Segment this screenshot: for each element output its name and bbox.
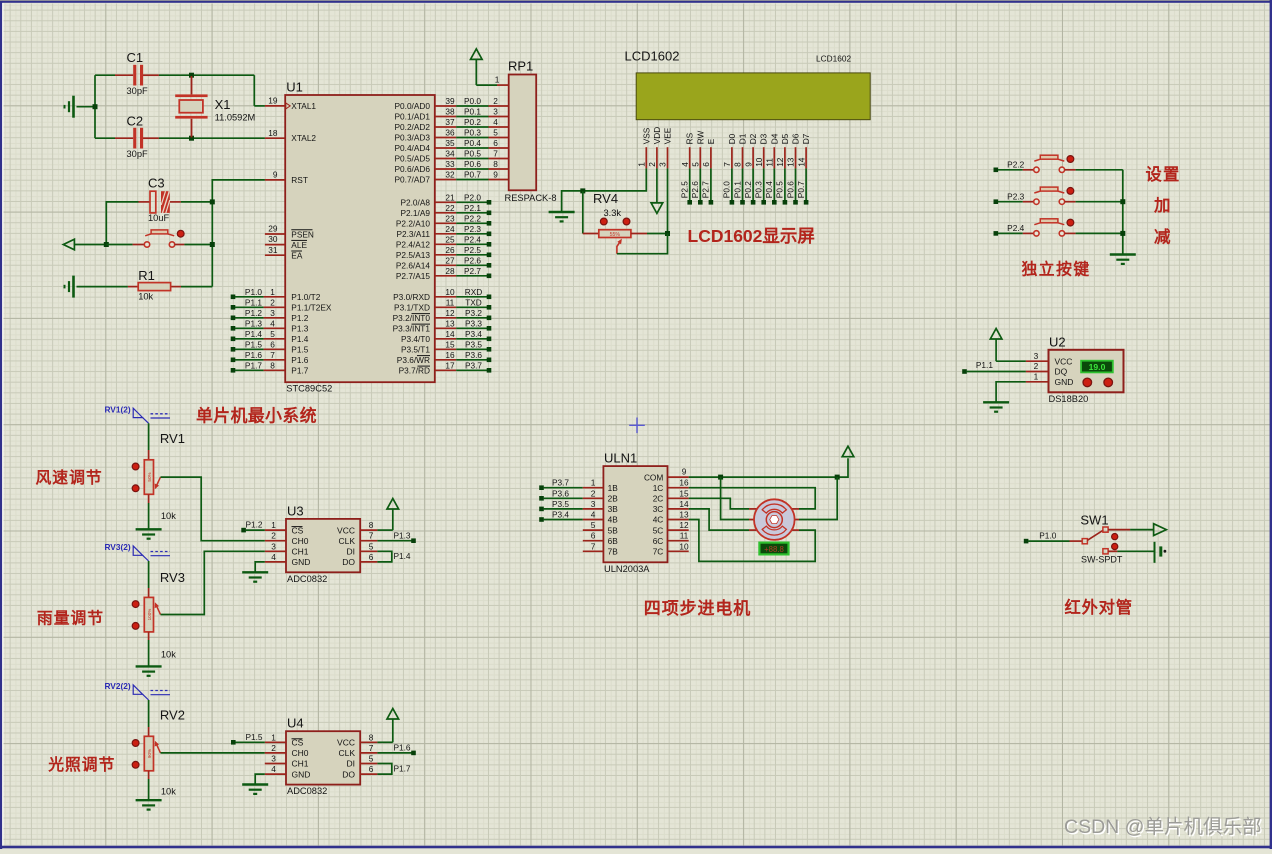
wire VEE — [667, 168, 669, 233]
node junction — [189, 136, 194, 141]
svg-text:P0.1: P0.1 — [464, 107, 481, 117]
pin P1.4 (5) with net label — [231, 329, 309, 344]
svg-text:6: 6 — [591, 531, 596, 541]
svg-text:3: 3 — [270, 308, 275, 318]
svg-text:2: 2 — [591, 488, 596, 498]
svg-text:3: 3 — [271, 754, 276, 764]
pin EA (31) — [265, 245, 303, 261]
svg-text:19: 19 — [268, 96, 278, 106]
svg-text:ULN2003A: ULN2003A — [604, 564, 650, 574]
power up arrow — [471, 49, 483, 85]
wire — [148, 503, 150, 529]
push button P2.2 — [994, 155, 1123, 172]
svg-text:P1.5: P1.5 — [245, 732, 262, 742]
svg-text:P1.7: P1.7 — [245, 360, 262, 370]
pin P2.4 (25) with net label — [396, 234, 491, 249]
svg-text:GND: GND — [292, 769, 311, 779]
net tap RV3(2) — [104, 542, 170, 561]
svg-text:30pF: 30pF — [127, 149, 149, 159]
pin RST (9) — [265, 170, 308, 186]
svg-text:P2.3/A11: P2.3/A11 — [396, 229, 430, 239]
U4 left pin 3 — [265, 754, 286, 764]
svg-text:PSEN: PSEN — [291, 229, 314, 239]
temperature sensor U2 DS18B20 — [1026, 334, 1124, 404]
node junction — [835, 475, 840, 480]
svg-text:8: 8 — [369, 732, 374, 742]
wire — [94, 75, 96, 138]
svg-text:GND: GND — [292, 557, 311, 567]
svg-text:LCD1602显示屏: LCD1602显示屏 — [688, 226, 815, 246]
svg-text:P1.6: P1.6 — [291, 355, 308, 365]
LCD pin 3 VEE — [658, 127, 673, 168]
svg-text:P2.2: P2.2 — [1007, 160, 1024, 170]
svg-text:P2.7: P2.7 — [701, 181, 711, 198]
svg-text:P1.2: P1.2 — [245, 308, 262, 318]
svg-text:P2.5: P2.5 — [680, 181, 690, 198]
pin P1.2 (3) with net label — [231, 308, 309, 323]
pin 6B — [583, 531, 618, 546]
wire — [647, 233, 668, 235]
svg-text:5: 5 — [591, 520, 596, 530]
svg-text:P1.4: P1.4 — [245, 329, 262, 339]
push button P2.4 — [994, 219, 1123, 236]
svg-text:P1.7: P1.7 — [393, 763, 410, 773]
svg-text:11.0592M: 11.0592M — [215, 112, 256, 122]
svg-text:DO: DO — [342, 557, 355, 567]
svg-text:10: 10 — [754, 157, 764, 167]
pin ALE (30) — [265, 234, 308, 250]
svg-text:18: 18 — [268, 128, 278, 138]
svg-text:光照调节: 光照调节 — [47, 755, 115, 774]
svg-text:设置: 设置 — [1146, 166, 1181, 184]
svg-text:VDD: VDD — [652, 127, 662, 145]
wire wiper — [617, 234, 668, 254]
svg-text:3.3k: 3.3k — [604, 208, 622, 218]
wire 1C to motor right top — [689, 488, 816, 509]
svg-text:独立按键: 独立按键 — [1022, 260, 1091, 279]
terminal output arrow — [1154, 524, 1167, 536]
svg-text:EA: EA — [291, 251, 303, 261]
U4 left pin 1 — [265, 732, 286, 742]
svg-text:P1.0: P1.0 — [245, 287, 262, 297]
motor rpm display — [759, 543, 788, 555]
wire — [148, 561, 150, 588]
svg-text:24: 24 — [445, 224, 455, 234]
svg-text:P0.4/AD4: P0.4/AD4 — [394, 143, 430, 153]
power up arrow — [842, 446, 854, 457]
ground — [65, 96, 96, 118]
svg-text:RV1: RV1 — [160, 431, 185, 446]
wire — [1117, 550, 1154, 552]
pin 4B — [539, 510, 618, 525]
wire COM to power — [689, 458, 848, 477]
svg-text:P1.4: P1.4 — [393, 551, 410, 561]
svg-text:P3.4: P3.4 — [552, 510, 569, 520]
svg-text:CH1: CH1 — [292, 547, 309, 557]
svg-text:P2.6/A14: P2.6/A14 — [396, 261, 431, 271]
wire — [181, 286, 212, 288]
pin P1.5 (6) with net label — [231, 339, 309, 354]
pin P2.3 (24) with net label — [396, 224, 491, 239]
LCD pin 8 D1 — [733, 133, 748, 168]
svg-text:P2.6: P2.6 — [690, 181, 700, 198]
U4 left pin 4 — [265, 764, 286, 774]
svg-text:P3.1/TXD: P3.1/TXD — [394, 303, 430, 313]
U4 right pin 5 — [360, 754, 377, 764]
resistor pack RP1 RESPACK-8 — [495, 59, 557, 203]
wire 4C to motor right bottom — [689, 520, 816, 562]
svg-text:28: 28 — [445, 266, 455, 276]
svg-text:P3.5: P3.5 — [465, 339, 482, 349]
svg-text:P0.7: P0.7 — [796, 181, 806, 198]
wire — [159, 74, 254, 76]
svg-text:P2.2: P2.2 — [464, 213, 481, 223]
svg-text:12: 12 — [679, 520, 689, 530]
svg-text:39: 39 — [445, 96, 455, 106]
svg-text:P3.7: P3.7 — [552, 478, 569, 488]
wire DQ net P1.1 — [962, 360, 1026, 374]
svg-text:U2: U2 — [1049, 334, 1066, 349]
resistor R1 10k — [128, 268, 181, 302]
svg-text:3: 3 — [1034, 351, 1039, 361]
svg-text:P3.4/T0: P3.4/T0 — [401, 334, 430, 344]
svg-text:P1.0/T2: P1.0/T2 — [291, 292, 320, 302]
pin P3.0 (10) with net label — [393, 287, 491, 302]
svg-text:37: 37 — [445, 117, 455, 127]
svg-text:P0.2/AD2: P0.2/AD2 — [394, 122, 430, 132]
svg-text:CH1: CH1 — [292, 759, 309, 769]
svg-text:9: 9 — [493, 170, 498, 180]
potentiometer RV4 3.3k — [583, 191, 647, 254]
svg-text:COM: COM — [644, 472, 663, 482]
wire net P0.2 — [743, 168, 755, 204]
wire DI-DO net P1.7 — [377, 763, 411, 774]
LCD pin 13 D6 — [786, 133, 801, 168]
svg-text:14: 14 — [796, 157, 806, 167]
node junction — [210, 242, 215, 247]
LCD1602 display body — [636, 73, 870, 120]
svg-text:27: 27 — [445, 255, 455, 265]
svg-text:P1.3: P1.3 — [393, 530, 410, 540]
svg-text:RESPACK-8: RESPACK-8 — [505, 193, 557, 203]
wire 2C to motor left top — [689, 498, 749, 509]
ground — [983, 402, 1009, 411]
LCD pin 10 D3 — [754, 133, 769, 168]
LCD pin 14 D7 — [796, 133, 811, 168]
potentiometer RV1 10k — [132, 431, 185, 521]
svg-text:4C: 4C — [653, 515, 664, 525]
U3 right pin 6 — [360, 552, 377, 562]
svg-text:VCC: VCC — [337, 525, 355, 535]
svg-text:2: 2 — [270, 297, 275, 307]
cursor crosshair marker — [629, 418, 645, 434]
svg-text:6: 6 — [369, 552, 374, 562]
wire — [95, 74, 115, 76]
svg-text:100%: 100% — [147, 609, 152, 621]
svg-text:P2.4/A12: P2.4/A12 — [396, 240, 431, 250]
mcu U1 STC89C52 — [285, 80, 435, 394]
svg-text:2: 2 — [271, 743, 276, 753]
svg-text:CLK: CLK — [338, 536, 355, 546]
wire net P0.0 — [722, 168, 734, 204]
svg-text:CH0: CH0 — [292, 536, 309, 546]
svg-text:单片机最小系统: 单片机最小系统 — [196, 406, 317, 426]
pin COM (9) — [644, 467, 689, 483]
svg-text:P0.1/AD1: P0.1/AD1 — [394, 112, 430, 122]
wire — [582, 191, 584, 234]
svg-text:12: 12 — [775, 157, 785, 167]
pin P3.6 (16) with net label — [397, 350, 492, 365]
terminal output arrow — [63, 239, 106, 250]
pin P1.0 (1) with net label — [231, 287, 321, 302]
pin P2.0 (21) with net label — [400, 192, 491, 207]
svg-text:1: 1 — [271, 732, 276, 742]
node junction — [189, 73, 194, 78]
U3 left pin 2 — [265, 531, 286, 541]
svg-text:10: 10 — [679, 541, 689, 551]
wire VCC to power — [377, 529, 392, 531]
pin 2C (15) — [653, 488, 689, 503]
pin 1B — [539, 478, 618, 493]
pin P3.1 (11) with net label — [394, 297, 491, 312]
svg-text:11: 11 — [765, 158, 775, 167]
svg-text:6: 6 — [270, 339, 275, 349]
pin P3.5 (15) with net label — [401, 339, 491, 354]
svg-text:5B: 5B — [608, 525, 619, 535]
svg-text:35: 35 — [445, 138, 455, 148]
ground — [65, 276, 128, 298]
svg-text:P2.4: P2.4 — [1007, 223, 1024, 233]
svg-text:X1: X1 — [215, 97, 231, 112]
svg-text:P1.5: P1.5 — [245, 339, 262, 349]
LCD pin 6 E — [701, 138, 716, 168]
wire — [148, 423, 150, 450]
svg-text:3: 3 — [658, 162, 668, 167]
pin P0.1 (38) wire to RP1 pin 3 — [394, 107, 508, 122]
svg-text:D6: D6 — [791, 133, 801, 144]
potentiometer RV3 10k — [132, 570, 185, 660]
wire — [181, 201, 212, 203]
LCD pin 12 D5 — [775, 133, 790, 168]
pin XTAL2 (18) — [265, 128, 317, 143]
svg-text:P2.3: P2.3 — [464, 224, 481, 234]
svg-text:25: 25 — [445, 234, 455, 244]
wire — [148, 640, 150, 666]
power up arrow — [387, 709, 399, 743]
svg-text:RV2: RV2 — [160, 708, 185, 723]
svg-text:P2.1: P2.1 — [464, 203, 481, 213]
svg-text:C1: C1 — [127, 50, 144, 65]
svg-text:RV2(2): RV2(2) — [104, 681, 130, 691]
svg-text:VSS: VSS — [641, 127, 651, 144]
svg-text:6B: 6B — [608, 536, 619, 546]
svg-text:XTAL2: XTAL2 — [291, 133, 316, 143]
pin 4C (13) — [653, 510, 689, 525]
svg-text:6C: 6C — [653, 536, 664, 546]
svg-text:SW1: SW1 — [1080, 513, 1108, 528]
U3 left pin 4 — [265, 552, 286, 562]
wire — [148, 700, 150, 727]
svg-text:2: 2 — [1034, 361, 1039, 371]
svg-text:P2.5/A13: P2.5/A13 — [396, 250, 431, 260]
svg-text:P0.2: P0.2 — [743, 181, 753, 198]
svg-text:C2: C2 — [127, 114, 144, 129]
svg-text:P1.7: P1.7 — [291, 366, 308, 376]
svg-text:9: 9 — [273, 170, 278, 180]
wire — [148, 779, 150, 800]
wire — [159, 137, 265, 139]
svg-text:+88.8: +88.8 — [764, 545, 784, 554]
adc U3 ADC0832 — [286, 503, 360, 583]
svg-text:1: 1 — [495, 75, 500, 85]
svg-text:P0.0: P0.0 — [464, 96, 481, 106]
power down arrow VDD — [651, 168, 663, 213]
wire VSS to ground — [562, 168, 647, 212]
svg-text:26: 26 — [445, 245, 455, 255]
svg-text:7: 7 — [591, 541, 596, 551]
svg-text:9: 9 — [743, 162, 753, 167]
wire bus — [1122, 170, 1124, 255]
svg-text:12: 12 — [445, 308, 455, 318]
svg-text:DS18B20: DS18B20 — [1049, 394, 1089, 404]
LCD pin 7 D0 — [722, 133, 737, 168]
svg-text:XTAL1: XTAL1 — [291, 101, 316, 111]
svg-text:P2.7/A15: P2.7/A15 — [396, 271, 431, 281]
svg-text:7C: 7C — [653, 547, 664, 557]
node junction — [665, 231, 670, 236]
svg-text:P3.4: P3.4 — [465, 329, 482, 339]
svg-text:U3: U3 — [287, 503, 304, 518]
svg-text:DI: DI — [347, 547, 356, 557]
svg-text:P3.3/INT1: P3.3/INT1 — [393, 324, 431, 334]
svg-text:RV3(2): RV3(2) — [104, 542, 130, 552]
svg-text:P3.0/RXD: P3.0/RXD — [393, 292, 430, 302]
wire — [476, 84, 497, 86]
node junction — [580, 188, 585, 193]
svg-text:15: 15 — [679, 488, 689, 498]
wire wiper to U3 CH0 — [161, 477, 265, 541]
svg-text:33: 33 — [445, 159, 455, 169]
wire wiper to U4 CH0 — [161, 752, 265, 754]
pin P0.6 (33) wire to RP1 pin 8 — [394, 159, 508, 174]
svg-text:P1.1: P1.1 — [976, 360, 993, 370]
pin P0.3 (36) wire to RP1 pin 5 — [394, 128, 508, 143]
svg-text:5C: 5C — [653, 525, 664, 535]
pin P2.1 (22) with net label — [400, 203, 491, 218]
pin 6C (11) — [653, 531, 689, 546]
svg-text:10uF: 10uF — [148, 213, 170, 223]
svg-text:P1.5: P1.5 — [291, 345, 308, 355]
svg-text:P0.4: P0.4 — [764, 181, 774, 198]
svg-text:3: 3 — [493, 107, 498, 117]
pin P1.7 (8) with net label — [231, 360, 309, 375]
svg-text:DQ: DQ — [1055, 367, 1068, 377]
svg-text:13: 13 — [445, 318, 455, 328]
battery cell — [1155, 542, 1167, 563]
svg-text:P0.3/AD3: P0.3/AD3 — [394, 133, 430, 143]
svg-text:P2.2/A10: P2.2/A10 — [396, 219, 431, 229]
wire — [253, 75, 255, 106]
ground — [549, 212, 575, 221]
switch SW1 SW-SPDT — [1070, 513, 1131, 565]
svg-text:CH0: CH0 — [292, 748, 309, 758]
svg-text:7: 7 — [270, 350, 275, 360]
svg-text:4B: 4B — [608, 515, 619, 525]
wire net P1.3 — [377, 530, 415, 543]
svg-text:8: 8 — [733, 162, 743, 167]
svg-text:加: 加 — [1153, 196, 1171, 215]
svg-text:4: 4 — [270, 318, 275, 328]
pin P3.3 (13) with net label — [393, 318, 492, 333]
svg-text:P0.0/AD0: P0.0/AD0 — [394, 101, 430, 111]
svg-text:四项步进电机: 四项步进电机 — [644, 598, 751, 618]
svg-text:RW: RW — [695, 130, 705, 144]
wire — [254, 105, 265, 107]
wire — [95, 137, 115, 139]
svg-text:VEE: VEE — [663, 127, 673, 144]
svg-text:DO: DO — [342, 769, 355, 779]
svg-text:14: 14 — [445, 329, 455, 339]
pin 7B — [583, 541, 618, 556]
wire COM to motor right centre — [799, 477, 837, 519]
wire net P0.6 — [785, 168, 798, 204]
svg-text:13: 13 — [679, 510, 689, 520]
svg-text:P0.3: P0.3 — [464, 128, 481, 138]
svg-text:30: 30 — [268, 234, 278, 244]
wire net P1.0 — [1024, 530, 1070, 543]
wire net P2.6 — [690, 168, 703, 204]
svg-text:P2.0/A8: P2.0/A8 — [400, 198, 430, 208]
svg-text:55%: 55% — [610, 232, 621, 238]
svg-text:1: 1 — [271, 520, 276, 530]
svg-text:RV3: RV3 — [160, 570, 185, 585]
U4 right pin 6 — [360, 764, 377, 774]
node junction — [210, 199, 215, 204]
pin XTAL1 (19) — [265, 96, 317, 111]
capacitor C1 — [115, 50, 159, 96]
svg-text:29: 29 — [268, 224, 278, 234]
ground — [136, 800, 162, 809]
svg-text:P3.7/RD: P3.7/RD — [399, 366, 430, 376]
svg-text:P3.6: P3.6 — [465, 350, 482, 360]
svg-text:14: 14 — [679, 499, 689, 509]
svg-text:P1.2: P1.2 — [291, 313, 308, 323]
pin P3.2 (12) with net label — [393, 308, 492, 323]
svg-text:P2.6: P2.6 — [464, 255, 481, 265]
svg-text:10k: 10k — [161, 511, 176, 521]
svg-text:P3.6: P3.6 — [552, 488, 569, 498]
pin P1.3 (4) with net label — [231, 318, 309, 333]
svg-text:P0.4: P0.4 — [464, 138, 481, 148]
U3 right pin 5 — [360, 541, 377, 551]
svg-text:E: E — [706, 138, 716, 144]
svg-text:9: 9 — [682, 467, 687, 477]
U3 left pin 3 — [265, 541, 286, 551]
svg-text:D7: D7 — [801, 133, 811, 144]
svg-text:4: 4 — [271, 764, 276, 774]
svg-text:10k: 10k — [161, 787, 176, 797]
svg-text:P0.2: P0.2 — [464, 117, 481, 127]
pin 2B — [539, 488, 618, 503]
svg-text:P2.3: P2.3 — [1007, 191, 1024, 201]
svg-text:32: 32 — [445, 170, 455, 180]
wire VCC to power — [377, 741, 392, 743]
svg-text:P0.5: P0.5 — [775, 181, 785, 198]
svg-text:1: 1 — [591, 478, 596, 488]
power up arrow — [990, 329, 1002, 362]
svg-text:1: 1 — [1034, 371, 1039, 381]
pin 7C (10) — [653, 541, 689, 556]
